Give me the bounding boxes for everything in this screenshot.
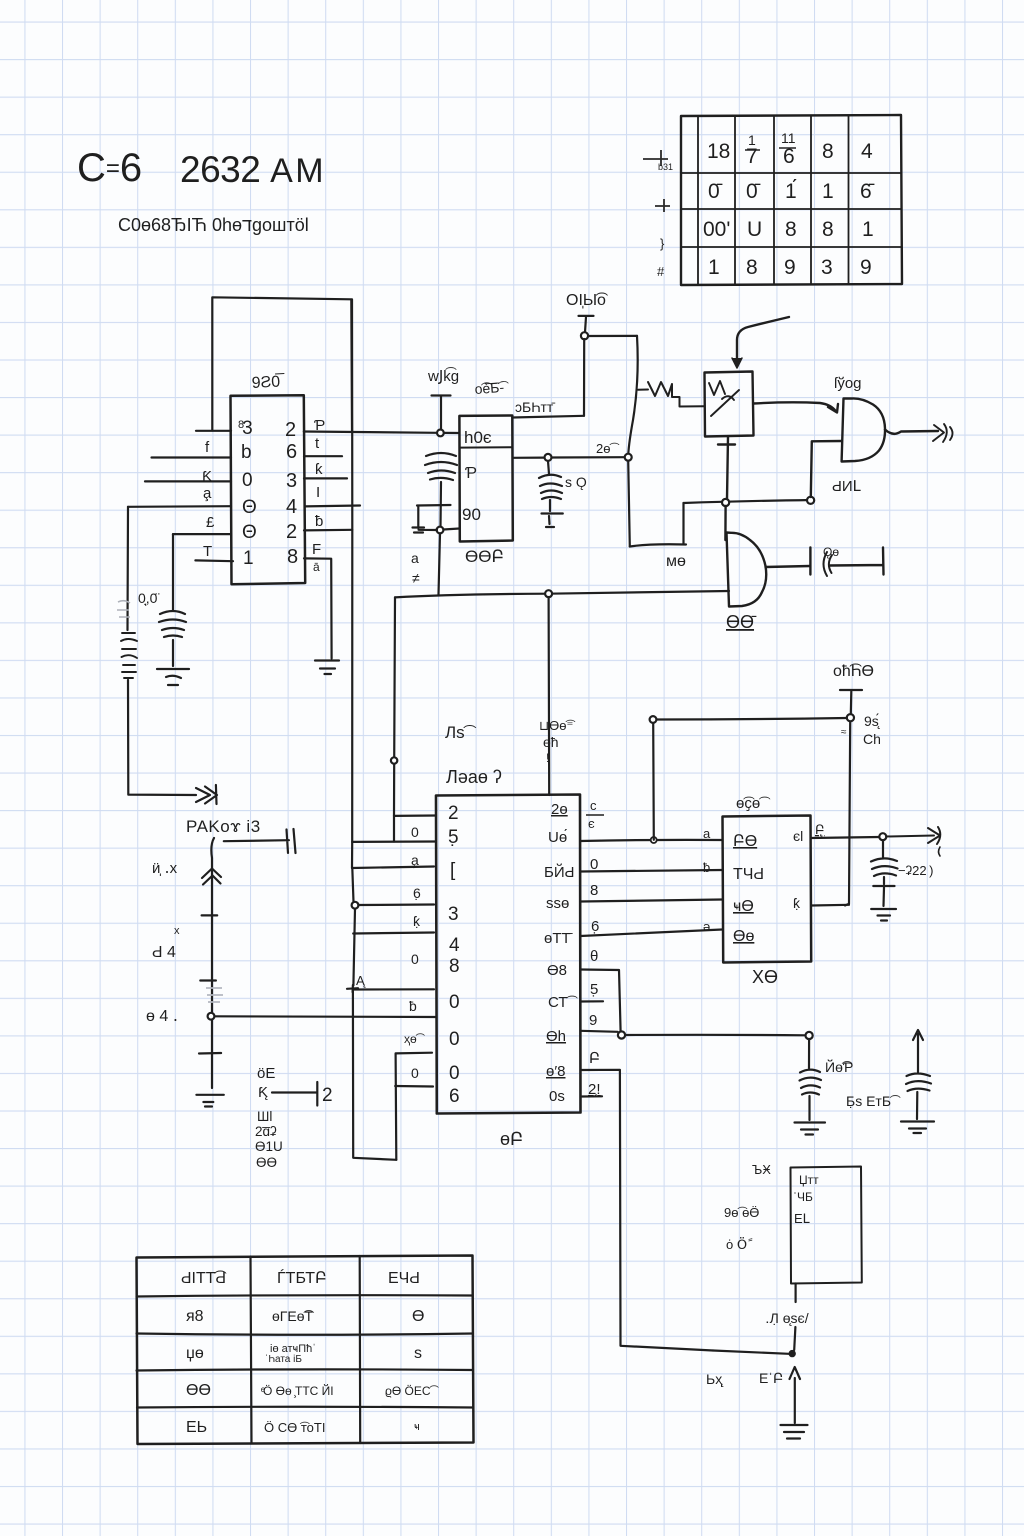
svg-text:8: 8 [785,218,797,241]
svg-text:Θ: Θ [242,497,257,518]
U3 left wire row2 [352,816,436,842]
svg-text:8: 8 [822,218,834,241]
svg-text:8: 8 [449,956,460,977]
svg-text:9ѕ̨́: 9ѕ̨́ [864,713,881,729]
up arrow below node [790,1367,801,1423]
svg-text:9: 9 [589,1012,597,1029]
oiho right rail down to U4 pin G [845,722,850,906]
U3 right wire row4 to U4 [581,900,723,902]
svg-text:Uө́: Uө́ [548,829,567,846]
svg-text:өГЕө͡Т: өГЕө͡Т [272,1308,314,1324]
svg-text:Џтт: Џтт [799,1173,819,1187]
bottom node dot [790,1351,795,1356]
svg-text:ТЧԀ: ТЧԀ [733,866,764,883]
wire osc pin to node chain [513,456,625,459]
G1 input wire bottom [811,441,842,497]
svg-text:єl: єl [793,828,803,844]
U1 right wire pin b to vertical [304,529,352,532]
svg-text:БЙԀ: БЙԀ [544,863,574,881]
wkg cap label [427,367,459,385]
svg-text:ѕ Ǫ: ѕ Ǫ [565,474,587,490]
G2 output wire [766,566,811,567]
svg-text:oћ͡ҺӨ: oћ͡ҺӨ [833,663,874,680]
svg-text:£: £ [206,514,215,531]
svg-text:я8: я8 [186,1308,204,1325]
svg-text:00': 00' [703,218,730,241]
U1 left stub pin2 f [152,456,232,458]
cap C5 below node y1035 [800,1039,822,1120]
U1 left wire pin5 to cap [173,533,231,535]
vertical bus node down to main IC top pin [547,597,550,795]
svg-text:Ƥ: Ƥ [465,465,477,482]
U3 right outside pin numbers [588,798,601,1098]
svg-text:өԲ: өԲ [500,1129,523,1149]
svg-text:wͿk͡g: wͿk͡g [427,367,459,385]
svg-text:ӨӨ: ӨӨ [186,1382,211,1399]
cap C6 ground [901,1122,934,1134]
Q1 control arrow curve [737,317,789,361]
svg-text:Сһ: Сһ [863,731,881,747]
U1 left stub pin3 [145,480,231,482]
svg-text:1: 1 [708,256,720,279]
AND gate G1 [842,398,885,461]
svg-text:Ӧ СӨ ͡тоТІ: Ӧ СӨ ͡тоТІ [264,1420,325,1435]
IC U1 label 950 [251,372,285,392]
svg-text:3: 3 [448,904,459,925]
svg-text:8: 8 [287,546,298,568]
U3 right wire row6 down [581,970,621,1032]
capacitor C1 lead [172,534,174,610]
signal table texts [181,1268,440,1436]
U3 left wire row3 [352,867,434,869]
A label [356,973,367,988]
svg-text:θ: θ [590,948,598,965]
capacitor C1 plates [159,611,186,637]
svg-text:Բ̨: Բ̨ [815,822,825,837]
svg-text:OІ̩Ы͡o: OІ̩Ы͡o [566,292,609,309]
faint scribbles beside left bus [117,601,130,617]
IC U1 body [231,395,306,584]
arrow chevrons input [196,785,217,804]
U3 left pin numbers [448,803,460,1107]
svg-text:ā: ā [313,560,320,574]
U2 top label [474,379,510,397]
oiho labels right [841,713,881,747]
truth table frame [681,115,902,285]
cap C2 wire and plate [272,1082,317,1106]
svg-text:Йө͡Ƥ: Йө͡Ƥ [825,1058,853,1075]
OIJO supply bar [579,316,594,332]
U4 label above [736,795,771,812]
cap C4 below output node [871,840,898,906]
U3 right wire row3 to U4 [581,870,723,872]
chain chevrons [202,869,221,885]
svg-text:ө 4 ․: ө 4 ․ [146,1008,178,1025]
gate squiggle to mosfet [638,382,704,407]
chain ground [196,1095,223,1107]
IC U4 body [723,816,812,963]
junction dot on vertical [391,757,397,763]
cap C3 label [565,474,587,490]
bus594 left end down to main IC row1 [394,597,395,816]
chain tick 1 [202,914,218,916]
lead below bottom box [794,1284,796,1303]
svg-text:ƙ̣: ƙ̣ [413,913,421,929]
crystal node lower [437,527,444,534]
bus y594 [395,591,729,597]
svg-text:һ0є: һ0є [464,428,492,447]
svg-text:ƙ: ƙ [315,461,323,478]
svg-text:5̣: 5̣ [590,981,598,998]
cap C4 label [898,863,933,878]
svg-text:9ө͡ өӪ: 9ө͡ өӪ [724,1205,759,1220]
loop wire over U1 [212,297,352,431]
vertical rail from loop down to main IC [351,299,353,868]
svg-text:0: 0 [411,951,419,967]
svg-text:0: 0 [242,470,253,491]
left rail down through crossing [353,990,396,1160]
Q1 interior marks [709,381,739,416]
truth table column lines [698,116,849,284]
cap C2 labels 6E [257,1065,333,1106]
wire y1035 [625,1034,806,1037]
svg-text:ƙ̣: ƙ̣ [793,895,801,911]
U2 bottom label 00B [465,547,504,566]
G1 input wire top from Q1 [754,402,839,412]
svg-text:≠: ≠ [412,570,420,586]
signal table row lines [137,1295,474,1407]
bottom labels [706,1310,809,1387]
ANT label [515,399,555,415]
bottom box inside labels [793,1173,819,1226]
svg-text:ƀ: ƀ [409,998,417,1014]
U3 left wire row1 [394,814,436,817]
left bus down from pin4 [126,507,129,630]
truth table left side tick marks [643,150,670,212]
svg-text:9: 9 [860,256,872,279]
svg-text:Ләаө ʔ: Ләаө ʔ [446,767,502,787]
svg-text:1́: 1́ [785,180,797,203]
antenna chain vertical [211,838,214,1088]
svg-text:2: 2 [322,1085,333,1106]
svg-text:ҹ: ҹ [414,1421,420,1433]
U3 labels above [445,723,502,787]
svg-text:ӨӨԲ: ӨӨԲ [465,547,504,566]
svg-text:1: 1 [243,548,254,569]
svg-text:2: 2 [285,419,296,441]
svg-text:4: 4 [286,496,297,518]
svg-text:2: 2 [448,803,459,824]
svg-text:6: 6 [286,441,297,463]
IC U1 outside pin labels left [202,439,215,560]
U4 outside left pin labels [703,826,711,934]
U3 left rail node row4 [352,902,359,909]
U3 left wire row4 [358,903,434,906]
bracket cap to left [413,505,451,533]
svg-text:3: 3 [821,256,833,279]
svg-text:џө: џө [186,1345,204,1362]
svg-text:ЕЬ: ЕЬ [186,1419,207,1436]
U3 right wire row8 to node [581,1031,618,1032]
G1 labels [832,375,862,495]
crystal cap plates [425,453,457,480]
cap C1 value label [138,590,159,606]
svg-text:6̣: 6̣ [591,918,599,935]
svg-text:T: T [203,543,212,560]
svg-text:Өө: Өө [733,928,754,945]
svg-text:6: 6 [449,1086,460,1107]
svg-text:0: 0 [411,1065,419,1081]
svg-text:9: 9 [784,256,796,279]
ground under U1 right [315,661,339,675]
Q1 arrow head [732,358,742,368]
svg-text:8: 8 [590,882,598,899]
U3 right stub row7 [581,1000,604,1002]
oiho bar [840,690,862,714]
svg-text:ƀ: ƀ [315,513,323,530]
U4 output pin B wire [811,837,879,838]
ground under C1 [157,669,189,685]
vertical down to pin node [628,336,637,454]
svg-text:4: 4 [449,935,460,956]
svg-text:Ԁ 4: Ԁ 4 [152,944,176,961]
bus y503 [684,500,812,503]
bracket cap labels [411,550,420,586]
wire node to osc IC pin [443,529,459,530]
scribble labels near vertical [539,718,575,765]
oiho left node [650,716,657,723]
svg-text:0: 0 [411,824,419,840]
svg-text:ӨӨ: ӨӨ [256,1155,277,1170]
svg-text:Шl: Шl [257,1109,272,1124]
svg-text:0̩,̣0̈: 0̩,̣0̈ [138,590,159,606]
U4 label below X0 [752,967,778,987]
G1 output wire [885,430,938,434]
stacked net labels [255,1109,283,1170]
svg-text:6̣: 6̣ [413,885,421,901]
chain tick 3 [199,1052,221,1055]
U3 right wire row5 to U4 [581,930,723,937]
bus594 node [545,590,552,597]
U1 right stub pin t [304,455,342,457]
bus503 node left [722,499,729,506]
U3 label below 0B [500,1129,523,1149]
U3 right wire row9 long down [581,1070,713,1351]
bottom ground [781,1425,808,1439]
svg-text:öΕ: öΕ [257,1065,275,1082]
M0 wire from node down [628,461,630,547]
svg-text:ɔБҺтт̄: ɔБҺтт̄ [515,399,555,415]
title C-6 2632 A M [77,146,323,235]
corner rail up [396,1053,432,1160]
signal table frame [137,1256,474,1445]
svg-text:2: 2 [286,521,297,543]
svg-text:I: I [316,484,320,501]
svg-text:a: a [411,550,419,566]
svg-text:8: 8 [822,140,834,163]
label M0 [666,553,686,570]
M0 wire bottom horizontal [630,544,686,546]
svg-text:1: 1 [822,180,834,203]
crystal lower lead [439,482,442,527]
cap C6 with up arrow [906,1030,931,1119]
svg-text:ƀ: ƀ [703,860,710,875]
Q1 source lead down [718,437,735,500]
svg-text:ЪӾ: ЪӾ [752,1162,771,1177]
svg-text:0: 0 [449,1029,460,1050]
svg-text:[: [ [450,860,456,881]
svg-text:ӥ̩ ․х: ӥ̩ ․х [152,860,178,877]
wire U1 pin2 to osc IC [304,432,460,434]
oiho supply [833,663,874,680]
svg-text:⊔Өө͡⁼: ⊔Өө͡⁼ [539,718,575,733]
svg-text:өТТ̄: өТТ̄ [544,930,573,947]
svg-text:ЃТБТԲ: ЃТБТԲ [277,1268,327,1287]
truth table row lines [681,173,901,247]
junction of oiho rail on row2 wire [651,837,657,843]
svg-text:ԲӨ: ԲӨ [733,833,757,850]
svg-text:x: x [174,925,180,937]
svg-text:0: 0 [449,1063,460,1084]
output node [879,833,886,840]
U1 right stub pin k [304,477,347,479]
svg-text:ѕ: ѕ [414,1345,422,1362]
svg-text:C0ө68ЂІЋ 0һөדɡoштӧl: C0ө68ЂІЋ 0һөדɡoштӧl [118,215,309,235]
svg-text:a̧: a̧ [411,852,419,868]
svg-text:18: 18 [707,140,730,163]
U3 right wire row2 to U4 [581,840,723,841]
bottom right box [791,1167,862,1284]
svg-text:ǝ: ǝ [703,919,710,934]
IC U1 pin numbers left column [238,418,257,569]
svg-text:2ө: 2ө [551,801,568,818]
transistor Q1 box [705,372,754,437]
node y1035 right [806,1032,813,1039]
output cap plate 1 [809,548,811,575]
label 2k0 [596,441,619,456]
cap C5 labels [825,1058,901,1109]
svg-text:ХӨ: ХӨ [752,967,778,987]
cap C5 ground [795,1123,826,1135]
svg-text:U: U [747,218,762,241]
svg-text:2632 AM: 2632 AM [180,149,323,190]
arrow curl mark [939,847,941,856]
U3 left wire row5 [353,933,434,934]
label PAKo 13 [146,817,261,1025]
bottom box outside labels [724,1162,771,1252]
svg-text:ЕˈԲ: ЕˈԲ [759,1370,783,1386]
svg-text:ˈҺата іБ: ˈҺата іБ [265,1354,302,1365]
AND gate G2 [727,533,767,607]
svg-text:}: } [660,236,665,251]
U4 inside right labels [793,828,803,911]
U2 internal divider [461,446,512,448]
U1 left stub pin6 [195,559,233,562]
G2 label 00 [726,612,757,632]
left rail segment below row3 [352,868,355,986]
IC U1 pin numbers right column [285,419,298,568]
U3 left wire row 0 lower [395,1085,433,1088]
svg-text:Өһ: Өһ [546,1028,566,1045]
wkg terminal bar [432,396,451,430]
svg-text:ͤӦ Өө ̧ТТС ЙІ: ͤӦ Өө ̧ТТС ЙІ [261,1383,334,1398]
svg-text:a: a [703,826,711,841]
U3 right pin labels [544,801,578,1105]
IC U2 oscillator body [459,416,512,542]
svg-text:0: 0 [449,992,460,1013]
U3 left wire row A [353,988,434,990]
svg-text:є: є [588,816,595,831]
faint marks under tick2 [206,988,223,1002]
svg-text:өћ: өћ [543,734,559,750]
OIJO supply label [566,292,609,309]
svg-text:1: 1 [862,218,874,241]
U1 left wire pin4 long to left bus [128,505,231,508]
svg-text:!: ! [546,751,549,765]
A junction [347,985,358,992]
OIJO node down to ANT wire [583,339,585,416]
U4 inside left labels [733,833,764,945]
svg-text:Ө1U: Ө1U [255,1139,283,1154]
oiho wire left [657,718,847,720]
svg-text:Θ: Θ [242,522,257,543]
oiho left rail down to U4 row a [652,723,655,840]
svg-text:−ʡ22 ): −ʡ22 ) [898,863,933,878]
U4 right pin G wire [811,904,849,907]
lead segment 2 [794,1327,795,1350]
chain node junction [208,1013,215,1020]
truth table fraction bars [745,148,796,150]
bus503 node right [807,497,814,504]
U3 left outside labels [404,824,426,1081]
OIJO node [581,332,588,339]
svg-text:PAKoɤ і3: PAKoɤ і3 [186,817,261,836]
output wire to end bar [830,548,884,575]
output arrow [886,827,940,844]
U1 left stub pin1 [196,430,231,432]
svg-text:0ѕ: 0ѕ [549,1088,565,1105]
svg-text:Ө8: Ө8 [547,962,567,979]
svg-text:․Л̣ ө̨ѕє/: ․Л̣ ө̨ѕє/ [765,1310,809,1326]
svg-text:мө: мө [666,553,686,570]
svg-text:ԀИԼ: ԀИԼ [832,478,861,495]
svg-text:Ө: Ө [412,1308,424,1325]
svg-text:3: 3 [286,470,297,492]
svg-text:Ьҳ̨: Ьҳ̨ [706,1371,724,1387]
svg-text:11: 11 [781,130,796,146]
svg-text:ӨӨ̄: ӨӨ̄ [726,612,757,632]
svg-text:ҹӨ: ҹӨ [733,898,754,915]
S-bend up to bus503 [682,503,684,544]
svg-text:≈: ≈ [841,727,847,738]
svg-text:5̣: 5̣ [448,827,459,848]
G2 top input [724,506,727,540]
wire OIJO node to right [588,335,637,337]
R label on output [815,822,825,837]
G1 output arrowhead [933,424,953,442]
svg-text:с: с [590,798,597,813]
truth table cell digits [703,130,875,279]
output cap plate 2 curved [824,552,833,576]
svg-text:2ɑ̅ʡ: 2ɑ̅ʡ [255,1124,277,1139]
cap C4 ground [871,909,896,921]
svg-text:b31: b31 [658,162,673,172]
cap stub right of PAKo label [224,829,296,853]
chain tick 2 [200,979,216,981]
svg-text:ſўоɡ: ſўоɡ [834,375,862,392]
capacitor C1 lower lead [172,640,174,666]
bottom wire left from node [713,1351,789,1354]
